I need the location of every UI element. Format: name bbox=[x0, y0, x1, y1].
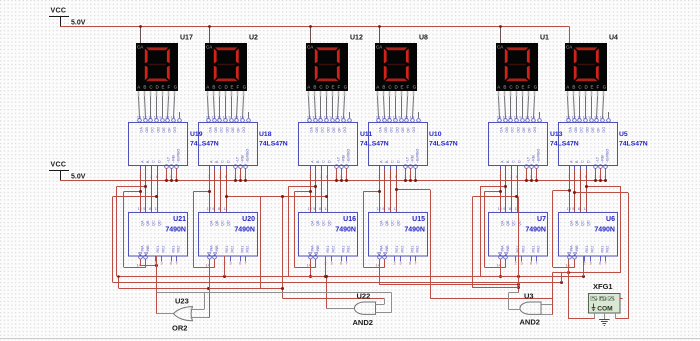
wire segment display U1 outputs A-G to decoder bbox=[498, 91, 540, 118]
svg-text:OE: OE bbox=[162, 127, 166, 133]
wire U20 INA down to U23 input bbox=[193, 259, 210, 318]
svg-text:2: 2 bbox=[515, 262, 517, 266]
svg-text:OE: OE bbox=[231, 127, 235, 133]
counter U15 bottom pins bbox=[378, 245, 420, 262]
svg-text:8: 8 bbox=[218, 207, 220, 211]
svg-text:QA: QA bbox=[209, 220, 213, 226]
wire U19 inputs to counter outputs bbox=[141, 169, 158, 212]
svg-text:5.0V: 5.0V bbox=[71, 174, 86, 181]
svg-text:U8: U8 bbox=[419, 35, 428, 42]
wire jog column U15 bbox=[363, 190, 384, 268]
svg-text:OE: OE bbox=[522, 127, 526, 133]
svg-text:CA: CA bbox=[566, 44, 572, 49]
svg-text:12: 12 bbox=[143, 116, 147, 120]
svg-text:7: 7 bbox=[346, 262, 348, 266]
svg-text:9: 9 bbox=[503, 207, 505, 211]
svg-text:7: 7 bbox=[176, 262, 178, 266]
svg-text:CA: CA bbox=[497, 44, 503, 49]
svg-text:INA: INA bbox=[379, 245, 383, 252]
svg-text:E: E bbox=[231, 85, 234, 90]
svg-text:15: 15 bbox=[404, 116, 408, 120]
svg-text:B: B bbox=[313, 85, 316, 90]
wire U3 input1 line bbox=[430, 298, 552, 304]
wire CA drop U2 bbox=[208, 25, 211, 43]
svg-text:OD: OD bbox=[156, 127, 160, 133]
svg-text:CA: CA bbox=[137, 44, 143, 49]
svg-text:14: 14 bbox=[240, 116, 244, 120]
svg-text:~RBI: ~RBI bbox=[532, 155, 536, 163]
svg-text:OC: OC bbox=[220, 127, 224, 133]
svg-text:U2: U2 bbox=[249, 35, 258, 42]
svg-text:U4: U4 bbox=[609, 35, 618, 42]
svg-text:E: E bbox=[522, 85, 525, 90]
svg-text:OD: OD bbox=[225, 127, 229, 133]
svg-text:AND2: AND2 bbox=[520, 318, 540, 327]
svg-text:12: 12 bbox=[138, 207, 142, 211]
svg-text:R01: R01 bbox=[395, 246, 399, 253]
svg-text:~LT: ~LT bbox=[236, 156, 240, 163]
pin numbers U6 bottom bbox=[566, 262, 607, 268]
pin numbers U15 bottom bbox=[376, 262, 417, 268]
label U13 74LS47N bbox=[550, 131, 579, 148]
function generator XFG1 bbox=[589, 282, 623, 313]
svg-text:QB: QB bbox=[316, 220, 320, 226]
svg-text:B: B bbox=[572, 85, 575, 90]
pin numbers U18 bbox=[208, 175, 246, 179]
svg-text:R02: R02 bbox=[331, 246, 335, 253]
svg-text:OD: OD bbox=[516, 127, 520, 133]
decoder U18 74LS47N bbox=[199, 116, 258, 169]
svg-text:CA: CA bbox=[307, 44, 313, 49]
svg-text:INA: INA bbox=[209, 245, 213, 252]
svg-text:QC: QC bbox=[152, 220, 156, 226]
label U5 74LS47N bbox=[619, 131, 648, 148]
svg-text:QA: QA bbox=[140, 220, 144, 226]
svg-text:F: F bbox=[168, 85, 171, 90]
svg-text:XFG1: XFG1 bbox=[593, 282, 613, 291]
svg-text:10: 10 bbox=[514, 116, 518, 120]
wire U21 INB loop bbox=[124, 259, 146, 268]
svg-text:U11: U11 bbox=[360, 131, 372, 138]
svg-text:~RBI: ~RBI bbox=[241, 155, 245, 163]
svg-text:R91: R91 bbox=[600, 246, 604, 253]
svg-text:8: 8 bbox=[578, 207, 580, 211]
svg-text:15: 15 bbox=[335, 116, 339, 120]
decoder U10 74LS47N bbox=[369, 116, 428, 169]
svg-text:D: D bbox=[327, 160, 331, 163]
svg-text:G: G bbox=[344, 85, 348, 90]
svg-text:OF: OF bbox=[237, 127, 241, 133]
label U11 74LS47N bbox=[360, 131, 389, 148]
pin numbers U11 bbox=[309, 175, 347, 179]
wire U15 INA down to long line bbox=[379, 259, 381, 285]
svg-text:OA: OA bbox=[309, 127, 313, 133]
svg-text:R92: R92 bbox=[347, 246, 351, 253]
svg-text:A: A bbox=[307, 85, 310, 90]
svg-text:R01: R01 bbox=[326, 246, 330, 253]
counter U20 7490N bbox=[199, 207, 258, 256]
counter U7 bottom pins bbox=[499, 245, 541, 262]
svg-text:7: 7 bbox=[605, 262, 607, 266]
counter U7 7490N bbox=[489, 207, 548, 256]
wire segment display U12 outputs A-G to decoder bbox=[308, 91, 350, 118]
svg-text:U17: U17 bbox=[180, 35, 193, 42]
svg-text:QB: QB bbox=[575, 220, 579, 226]
wire segment display U4 outputs A-G to decoder bbox=[567, 91, 609, 118]
svg-text:12: 12 bbox=[382, 116, 386, 120]
svg-text:13: 13 bbox=[137, 116, 141, 120]
svg-text:G: G bbox=[413, 85, 417, 90]
svg-text:~LT: ~LT bbox=[406, 156, 410, 163]
svg-text:C: C bbox=[581, 160, 585, 163]
svg-text:OD: OD bbox=[326, 127, 330, 133]
svg-text:QD: QD bbox=[327, 220, 331, 226]
svg-text:VCC: VCC bbox=[51, 8, 67, 15]
svg-text:9: 9 bbox=[572, 207, 574, 211]
svg-text:12: 12 bbox=[377, 207, 381, 211]
power VCC symbol (mid) bbox=[49, 162, 86, 181]
svg-text:6: 6 bbox=[530, 262, 532, 266]
svg-text:F: F bbox=[338, 85, 341, 90]
wire XFG1 terminals bbox=[568, 259, 615, 319]
label U10 74LS47N bbox=[429, 131, 458, 148]
svg-text:OF: OF bbox=[407, 127, 411, 133]
wire CA drop U12 bbox=[309, 25, 312, 43]
svg-text:AND2: AND2 bbox=[353, 318, 373, 327]
svg-text:INB: INB bbox=[385, 245, 389, 252]
wire U10 LT/RBI/BI to VCC bus bbox=[404, 168, 417, 182]
svg-text:9: 9 bbox=[398, 116, 400, 120]
svg-text:7490N: 7490N bbox=[234, 227, 255, 234]
svg-text:~RBI: ~RBI bbox=[601, 155, 605, 163]
svg-text:E: E bbox=[401, 85, 404, 90]
wire U13 inputs to counter outputs bbox=[501, 169, 518, 212]
svg-text:E: E bbox=[162, 85, 165, 90]
svg-text:6: 6 bbox=[340, 262, 342, 266]
counter U16 bottom pins bbox=[309, 245, 351, 262]
svg-text:8: 8 bbox=[149, 207, 151, 211]
svg-text:R91: R91 bbox=[341, 246, 345, 253]
svg-text:11: 11 bbox=[223, 207, 227, 211]
wire U5 inputs to counter outputs bbox=[570, 169, 587, 212]
svg-text:OG: OG bbox=[412, 127, 416, 133]
svg-text:11: 11 bbox=[577, 116, 581, 120]
pin numbers U7 bottom bbox=[497, 262, 538, 268]
svg-text:U13: U13 bbox=[550, 131, 563, 138]
svg-text:D: D bbox=[517, 160, 521, 163]
svg-text:QC: QC bbox=[581, 220, 585, 226]
counter U21 bottom pins bbox=[139, 245, 181, 262]
gate U22 AND2 (mirrored) bbox=[353, 292, 376, 328]
wire U6 QD right loop bbox=[561, 185, 621, 274]
svg-text:9: 9 bbox=[143, 207, 145, 211]
pin numbers U19 bbox=[139, 175, 177, 179]
svg-text:B: B bbox=[143, 85, 146, 90]
svg-text:R01: R01 bbox=[585, 246, 589, 253]
pin numbers U20 bottom bbox=[206, 262, 247, 268]
svg-text:C: C bbox=[391, 160, 395, 163]
svg-text:D: D bbox=[396, 160, 400, 163]
svg-text:11: 11 bbox=[393, 207, 397, 211]
svg-text:8: 8 bbox=[388, 207, 390, 211]
svg-text:R01: R01 bbox=[225, 246, 229, 253]
wire U19 LT/RBI/BI to VCC bus bbox=[165, 168, 178, 182]
svg-text:11: 11 bbox=[217, 116, 221, 120]
svg-text:13: 13 bbox=[376, 116, 380, 120]
svg-text:11: 11 bbox=[154, 207, 158, 211]
svg-text:3: 3 bbox=[331, 262, 333, 266]
wire U23 frame to input1 bbox=[157, 292, 205, 309]
svg-text:~LT: ~LT bbox=[596, 156, 600, 163]
svg-text:B: B bbox=[212, 85, 215, 90]
wire CA drop U8 bbox=[378, 25, 381, 43]
7-segment display U12 bbox=[306, 43, 348, 91]
svg-text:15: 15 bbox=[234, 116, 238, 120]
svg-text:U3: U3 bbox=[524, 291, 534, 300]
svg-text:A: A bbox=[376, 85, 379, 90]
svg-text:U20: U20 bbox=[242, 216, 255, 223]
svg-text:74LS47N: 74LS47N bbox=[429, 141, 458, 148]
svg-text:11: 11 bbox=[318, 116, 322, 120]
svg-text:R92: R92 bbox=[416, 246, 420, 253]
svg-text:G: G bbox=[534, 85, 538, 90]
svg-text:QD: QD bbox=[226, 220, 230, 226]
svg-text:B: B bbox=[503, 85, 506, 90]
svg-text:7: 7 bbox=[536, 262, 538, 266]
svg-text:U1: U1 bbox=[540, 35, 549, 42]
wire U20 QD long jog line bbox=[225, 195, 328, 298]
svg-text:C: C bbox=[152, 160, 156, 163]
svg-text:QB: QB bbox=[215, 220, 219, 226]
svg-text:OD: OD bbox=[585, 127, 589, 133]
svg-text:~LT: ~LT bbox=[337, 156, 341, 163]
svg-text:~BI/RBO: ~BI/RBO bbox=[606, 149, 610, 163]
svg-text:COM: COM bbox=[597, 306, 613, 313]
7-segment display U17 bbox=[136, 43, 178, 91]
wire U18 LT/RBI/BI to VCC bus bbox=[234, 168, 247, 182]
wire U22 output to R01 U16 bbox=[325, 275, 355, 309]
wire U6 QB to XFG1 negative terminal bbox=[573, 191, 629, 319]
pin numbers U16 bottom bbox=[307, 262, 348, 268]
wire U13 LT/RBI/BI to VCC bus bbox=[525, 168, 538, 182]
wire U23 input2 bbox=[191, 317, 209, 319]
svg-text:QD: QD bbox=[517, 220, 521, 226]
wire U22 input1 line bbox=[282, 298, 384, 304]
svg-text:OE: OE bbox=[401, 127, 405, 133]
svg-text:3: 3 bbox=[161, 262, 163, 266]
counter U6 bottom pins bbox=[568, 245, 610, 262]
svg-text:13: 13 bbox=[206, 116, 210, 120]
decoder U19 74LS47N bbox=[129, 116, 188, 169]
svg-text:QA: QA bbox=[310, 220, 314, 226]
svg-text:F: F bbox=[597, 85, 600, 90]
svg-text:~RBI: ~RBI bbox=[411, 155, 415, 163]
svg-text:11: 11 bbox=[514, 207, 518, 211]
counter U6 7490N bbox=[559, 207, 618, 256]
label U21 7490N bbox=[165, 216, 186, 234]
svg-text:E: E bbox=[332, 85, 335, 90]
svg-text:R02: R02 bbox=[230, 246, 234, 253]
svg-text:QC: QC bbox=[322, 220, 326, 226]
wire long line H4 (U23 area) bbox=[117, 275, 284, 290]
svg-text:U19: U19 bbox=[190, 131, 203, 138]
svg-text:9: 9 bbox=[382, 207, 384, 211]
wire U23 output loop bbox=[157, 266, 174, 314]
svg-text:6: 6 bbox=[239, 262, 241, 266]
svg-text:10: 10 bbox=[393, 116, 397, 120]
svg-text:9: 9 bbox=[159, 116, 161, 120]
svg-text:9: 9 bbox=[329, 116, 331, 120]
svg-text:R02: R02 bbox=[400, 246, 404, 253]
wire U18 inputs to counter outputs bbox=[210, 169, 227, 212]
svg-text:7: 7 bbox=[415, 262, 417, 266]
svg-text:CA: CA bbox=[206, 44, 212, 49]
svg-text:9: 9 bbox=[588, 116, 590, 120]
wire U10 inputs to counter outputs bbox=[380, 169, 397, 212]
svg-text:C: C bbox=[221, 160, 225, 163]
wire segment display U17 outputs A-G to decoder bbox=[138, 91, 180, 118]
wire CA drop U1 bbox=[499, 25, 502, 43]
svg-text:QC: QC bbox=[221, 220, 225, 226]
wire U7 reset line to U3 bbox=[472, 287, 519, 289]
svg-text:OR2: OR2 bbox=[172, 324, 187, 333]
svg-text:QC: QC bbox=[391, 220, 395, 226]
svg-text:C: C bbox=[512, 160, 516, 163]
svg-text:U23: U23 bbox=[175, 297, 189, 306]
svg-text:R91: R91 bbox=[240, 246, 244, 253]
label U19 74LS47N bbox=[190, 131, 219, 148]
svg-text:5.0V: 5.0V bbox=[71, 20, 86, 27]
wire jogs column U7 bbox=[472, 185, 518, 288]
counter U16 7490N bbox=[299, 207, 358, 256]
svg-text:U12: U12 bbox=[350, 35, 363, 42]
svg-text:OB: OB bbox=[505, 127, 509, 133]
svg-text:OG: OG bbox=[242, 127, 246, 133]
svg-text:3: 3 bbox=[590, 262, 592, 266]
svg-text:13: 13 bbox=[497, 116, 501, 120]
svg-text:7: 7 bbox=[245, 262, 247, 266]
svg-text:A: A bbox=[206, 85, 209, 90]
svg-text:6: 6 bbox=[170, 262, 172, 266]
svg-text:14: 14 bbox=[341, 116, 345, 120]
wire U15 QD jog to U3 input line bbox=[395, 188, 431, 298]
svg-text:8: 8 bbox=[319, 207, 321, 211]
svg-text:R91: R91 bbox=[531, 246, 535, 253]
svg-text:~LT: ~LT bbox=[167, 156, 171, 163]
svg-text:INB: INB bbox=[575, 245, 579, 252]
svg-text:D: D bbox=[226, 160, 230, 163]
wire U3 output net vertical bbox=[517, 197, 520, 293]
svg-text:~RBI: ~RBI bbox=[172, 155, 176, 163]
svg-text:~BI/RBO: ~BI/RBO bbox=[246, 149, 250, 163]
svg-text:8: 8 bbox=[509, 207, 511, 211]
7-segment display U8 bbox=[375, 43, 417, 91]
svg-text:15: 15 bbox=[594, 116, 598, 120]
svg-text:11: 11 bbox=[324, 207, 328, 211]
svg-text:OC: OC bbox=[321, 127, 325, 133]
wire U3 output loop bbox=[508, 293, 520, 310]
svg-text:7490N: 7490N bbox=[165, 227, 186, 234]
svg-text:13: 13 bbox=[566, 116, 570, 120]
svg-text:OG: OG bbox=[173, 127, 177, 133]
svg-text:OC: OC bbox=[580, 127, 584, 133]
svg-text:14: 14 bbox=[600, 116, 604, 120]
svg-text:R92: R92 bbox=[246, 246, 250, 253]
svg-text:2: 2 bbox=[394, 262, 396, 266]
svg-text:U7: U7 bbox=[537, 216, 546, 223]
wire jog column U6 bbox=[553, 189, 575, 268]
wire U11 inputs to counter outputs bbox=[311, 169, 328, 212]
svg-text:A: A bbox=[566, 85, 569, 90]
wire jog column U20 bbox=[193, 190, 214, 268]
pin numbers U10 bbox=[378, 175, 416, 179]
svg-text:QB: QB bbox=[385, 220, 389, 226]
svg-text:OG: OG bbox=[602, 127, 606, 133]
svg-text:74LS47N: 74LS47N bbox=[619, 141, 648, 148]
svg-text:R92: R92 bbox=[537, 246, 541, 253]
svg-text:INB: INB bbox=[215, 245, 219, 252]
svg-text:INA: INA bbox=[500, 245, 504, 252]
svg-text:~BI/RBO: ~BI/RBO bbox=[347, 149, 351, 163]
svg-text:R02: R02 bbox=[590, 246, 594, 253]
7-segment display U1 bbox=[496, 43, 538, 91]
svg-text:A: A bbox=[497, 85, 500, 90]
wire CA drop U17 bbox=[139, 25, 142, 43]
svg-text:15: 15 bbox=[525, 116, 529, 120]
svg-text:14: 14 bbox=[410, 116, 414, 120]
svg-text:G: G bbox=[174, 85, 178, 90]
svg-text:~BI/RBO: ~BI/RBO bbox=[416, 149, 420, 163]
svg-text:OF: OF bbox=[338, 127, 342, 133]
pin numbers U5 bbox=[568, 175, 606, 179]
label U7 7490N bbox=[525, 216, 546, 234]
svg-text:7490N: 7490N bbox=[594, 227, 615, 234]
wire segment display U8 outputs A-G to decoder bbox=[377, 91, 419, 118]
svg-text:~BI/RBO: ~BI/RBO bbox=[537, 149, 541, 163]
gate U23 OR2 (mirrored) bbox=[172, 297, 193, 333]
7-segment display U2 bbox=[205, 43, 247, 91]
svg-text:R01: R01 bbox=[156, 246, 160, 253]
svg-text:7490N: 7490N bbox=[335, 227, 356, 234]
svg-text:R02: R02 bbox=[521, 246, 525, 253]
svg-text:74LS47N: 74LS47N bbox=[190, 141, 219, 148]
decoder U11 74LS47N bbox=[299, 116, 358, 169]
wire jogs column U21 bbox=[112, 185, 158, 282]
svg-text:~LT: ~LT bbox=[527, 156, 531, 163]
svg-text:R92: R92 bbox=[606, 246, 610, 253]
svg-text:12: 12 bbox=[572, 116, 576, 120]
svg-text:10: 10 bbox=[583, 116, 587, 120]
svg-text:9: 9 bbox=[313, 207, 315, 211]
7-segment display U4 bbox=[565, 43, 607, 91]
power VCC symbol (top) bbox=[49, 8, 86, 27]
svg-text:12: 12 bbox=[207, 207, 211, 211]
svg-text:12: 12 bbox=[308, 207, 312, 211]
svg-text:R02: R02 bbox=[161, 246, 165, 253]
wire U22 input2 frame bbox=[204, 292, 391, 312]
svg-text:14: 14 bbox=[566, 264, 570, 268]
svg-text:CA: CA bbox=[376, 44, 382, 49]
svg-text:14: 14 bbox=[531, 116, 535, 120]
svg-text:OA: OA bbox=[499, 127, 503, 133]
wire VCC mid bus (to LT/RBI/BI pins) bbox=[60, 180, 606, 182]
svg-text:E: E bbox=[591, 85, 594, 90]
counter U15 7490N bbox=[369, 207, 428, 256]
svg-text:OE: OE bbox=[591, 127, 595, 133]
svg-text:OB: OB bbox=[315, 127, 319, 133]
svg-text:OC: OC bbox=[151, 127, 155, 133]
counter U21 7490N bbox=[129, 207, 188, 256]
